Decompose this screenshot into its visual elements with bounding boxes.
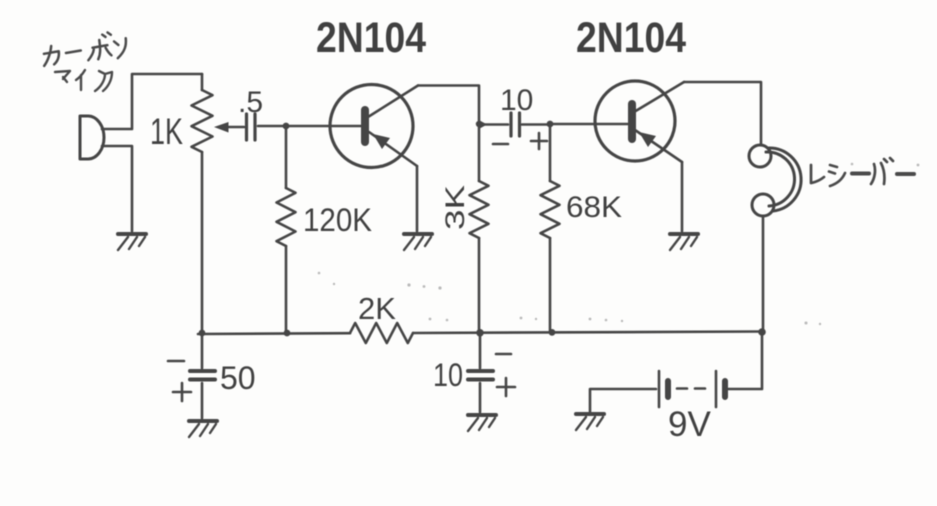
svg-text:10: 10 xyxy=(433,357,463,393)
resistor 2K xyxy=(350,323,413,343)
resistor 120K xyxy=(285,126,288,188)
wire mic bottom lead to ground xyxy=(102,146,132,231)
wire rail to battery + xyxy=(728,332,762,389)
svg-text:3K: 3K xyxy=(440,185,470,230)
Q1 emitter arrow (PNP) xyxy=(373,134,390,149)
capacitor 10 (bypass) xyxy=(479,333,482,412)
wire bottom rail left xyxy=(198,332,350,335)
wire Q2 emitter to ground xyxy=(681,162,684,231)
svg-text:2K: 2K xyxy=(358,291,396,326)
junction dots on rail xyxy=(199,328,766,336)
resistor 3K xyxy=(478,124,481,181)
ground (battery) xyxy=(576,412,604,416)
ground (cap 50) xyxy=(189,419,217,423)
Q2 emitter arrow (PNP) xyxy=(639,132,656,147)
capacitor 50 xyxy=(201,333,204,418)
label カーボン (carbon) xyxy=(41,31,127,66)
label レシーバー (receiver) xyxy=(811,158,914,186)
svg-text:2N104: 2N104 xyxy=(576,14,686,62)
faint scan smudges (decorative) xyxy=(318,163,920,325)
ground (cap 10) xyxy=(468,413,496,417)
svg-text:68K: 68K xyxy=(566,191,622,224)
svg-text:9V: 9V xyxy=(668,405,711,444)
node base1 junction xyxy=(283,123,290,130)
wire cap .5 to Q1 base xyxy=(258,125,362,128)
transistor Q2 xyxy=(595,81,684,162)
resistor 68K xyxy=(549,124,552,181)
ground (Q1 emitter) xyxy=(404,232,432,236)
polarity + (cap 50) xyxy=(173,383,191,401)
wire Q2 collector to receiver xyxy=(684,82,761,145)
wire cap10 to Q2 base xyxy=(550,123,628,126)
wire mic top lead to top rail xyxy=(102,74,202,129)
carbon microphone symbol xyxy=(80,116,104,159)
svg-text:2N104: 2N104 xyxy=(316,14,426,62)
potentiometer 1K xyxy=(201,74,204,90)
label マイク (mic) xyxy=(55,70,112,91)
svg-text:120K: 120K xyxy=(303,202,372,238)
wire receiver bottom to rail xyxy=(762,216,765,332)
polarity - (cap 50) xyxy=(168,360,184,363)
polarity - (coupling cap) xyxy=(493,143,508,146)
svg-text:.5: .5 xyxy=(238,86,263,119)
ground (Q2 emitter) xyxy=(670,232,698,236)
wire bottom rail right xyxy=(413,332,762,334)
polarity + (cap 10) xyxy=(497,378,515,396)
svg-text:10: 10 xyxy=(500,84,533,117)
node base2 junction xyxy=(547,121,554,128)
polarity - (cap 10) xyxy=(496,353,511,356)
polarity + (coupling cap) xyxy=(531,133,547,149)
transistor Q1 xyxy=(330,85,418,168)
svg-text:50: 50 xyxy=(220,360,256,396)
svg-text:1K: 1K xyxy=(150,111,183,152)
wiper arrow of 1K xyxy=(222,126,244,129)
capacitor 10 (coupling) xyxy=(511,113,520,136)
receiver (earphone) xyxy=(749,145,801,216)
wire 1K bottom to rail xyxy=(201,152,204,333)
wire Q1 collector to node A xyxy=(418,86,479,125)
small ink arrow at node (scan artifact) xyxy=(478,120,487,130)
node collector1 junction xyxy=(476,121,482,127)
capacitor .5 xyxy=(247,114,256,140)
ground (microphone) xyxy=(118,232,146,236)
wire battery - to ground xyxy=(590,389,656,412)
wire Q1 emitter to ground xyxy=(416,166,419,231)
battery 9V xyxy=(659,371,725,407)
